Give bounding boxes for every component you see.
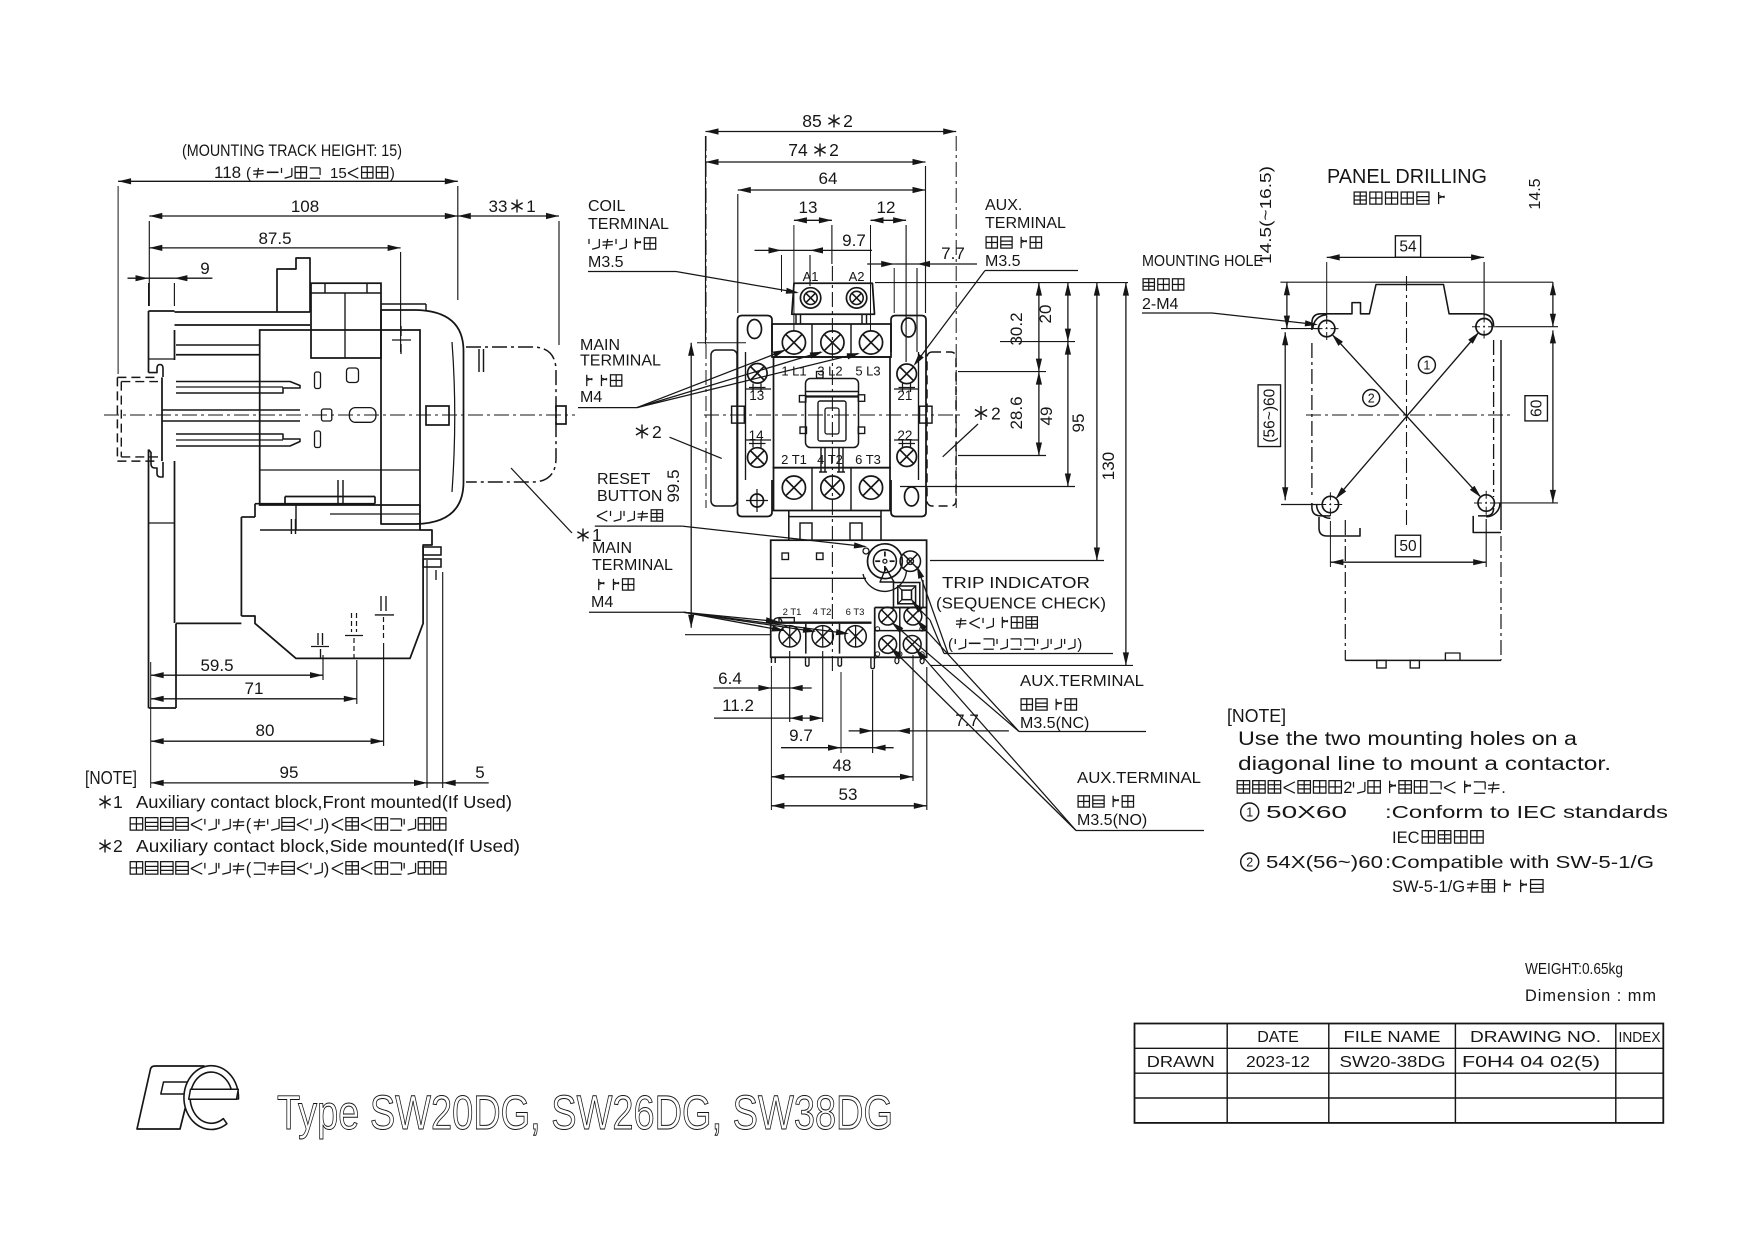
front view: locator pin bottom-left (751, 494, 764, 507)
Fuji Electric logo e ring (184, 1066, 239, 1130)
svg-text:1: 1 (1423, 359, 1430, 373)
svg-text:M4: M4 (580, 389, 602, 406)
front view: contactor upper body (772, 324, 891, 357)
front view: coil terminal housing (792, 283, 875, 314)
side view: body lower ribs (337, 480, 339, 505)
side view: top latch (277, 258, 310, 312)
title block: grid lines (1135, 1047, 1664, 1049)
svg-text:11.2: 11.2 (722, 696, 754, 715)
front view: horizontal center line (704, 414, 962, 416)
side view: relay screw mark 3 (380, 596, 382, 611)
svg-text:2 T1: 2 T1 (781, 452, 807, 467)
svg-text:108: 108 (291, 197, 319, 216)
svg-text:9.7: 9.7 (789, 726, 813, 745)
aux contact screw 21 (897, 364, 917, 384)
svg-text:AUX.TERMINAL: AUX.TERMINAL (1077, 770, 1201, 787)
note *2 line 2 (japanese) (130, 862, 142, 874)
circled 2 marker (1363, 390, 1380, 407)
svg-text:F0H4 04 02(5): F0H4 04 02(5) (1462, 1054, 1600, 1071)
front view: relay index squares (782, 553, 789, 560)
side view: relay screw mark 2 (351, 613, 353, 632)
svg-text:2: 2 (843, 111, 853, 131)
svg-text:9.7: 9.7 (842, 231, 866, 250)
panel: top reference line (1280, 281, 1553, 283)
front view: relay coupling (788, 511, 790, 541)
front view: ear hole top-left (748, 320, 762, 339)
svg-text:TERMINAL: TERMINAL (985, 215, 1066, 232)
side view: coil terminal block (top right) (311, 283, 381, 358)
svg-text:(: ( (246, 816, 252, 834)
svg-text:RESET: RESET (597, 471, 651, 488)
side view: body slot lower (315, 431, 321, 448)
front view: ear hole bottom-right (905, 487, 919, 506)
svg-text:2: 2 (113, 836, 123, 856)
svg-text:2: 2 (1343, 779, 1352, 797)
circled 1 marker (1418, 357, 1435, 374)
svg-text:21: 21 (897, 388, 912, 403)
trip indicator window (894, 583, 920, 608)
mounting hole top-left (1319, 320, 1335, 336)
svg-text:): ) (1077, 636, 1082, 653)
front view: relay bottom legs (806, 657, 810, 666)
svg-text:15: 15 (330, 165, 347, 182)
svg-text::Conform to IEC standards: :Conform to IEC standards (1385, 802, 1668, 822)
coil terminal A1 (800, 288, 820, 308)
svg-text:(SEQUENCE CHECK): (SEQUENCE CHECK) (936, 596, 1106, 613)
dimension 30.2 (1038, 283, 1040, 372)
note right item 1 (1241, 803, 1259, 821)
side view: body center slot (322, 409, 332, 421)
side view: DIN mounting rail (dashed C-channel) (117, 376, 158, 378)
svg-text:14.5(~16.5): 14.5(~16.5) (1258, 166, 1275, 264)
svg-text:2: 2 (829, 140, 839, 160)
front view: contactor lower terminal block (774, 468, 891, 511)
svg-text:54: 54 (1399, 239, 1417, 256)
svg-text:4 T2: 4 T2 (813, 607, 832, 618)
svg-text:WEIGHT:0.65kg: WEIGHT:0.65kg (1525, 961, 1623, 978)
svg-text:1: 1 (113, 792, 123, 812)
side view: body window (347, 368, 359, 383)
svg-text:2: 2 (652, 422, 662, 442)
leader: reset button (682, 526, 865, 546)
dimension 95 (front) (1096, 283, 1098, 561)
dimension 60 boxed right (1525, 396, 1548, 421)
svg-text:TERMINAL: TERMINAL (592, 557, 673, 574)
svg-text:6.4: 6.4 (718, 669, 742, 688)
svg-text:80: 80 (256, 721, 275, 740)
svg-text:Dimension : mm: Dimension : mm (1525, 987, 1657, 1005)
front view: relay lower terminal strip (771, 622, 871, 624)
svg-text:99.5: 99.5 (664, 469, 683, 502)
svg-text:1: 1 (1246, 806, 1253, 820)
svg-text:60: 60 (1528, 399, 1545, 417)
front view: ear hole top-right (902, 318, 916, 337)
panel drilling: body outline bottom (1312, 503, 1330, 516)
dimension 50 (boxed) (1395, 535, 1420, 557)
dimension 99.5 (690, 343, 692, 628)
svg-text:13: 13 (799, 198, 818, 217)
trip pin screw (900, 551, 920, 571)
leaders: main terminal upper to L1 L2 L3 (637, 351, 784, 408)
svg-text:IEC: IEC (1392, 829, 1420, 847)
note right line 3 (japanese) (1237, 781, 1249, 793)
side view: relay terminal screws (right side) (423, 547, 441, 555)
svg-text:A2: A2 (849, 269, 865, 284)
front view: index squares (799, 396, 806, 403)
side view: thermal relay block (285, 496, 375, 498)
svg-text:9: 9 (200, 259, 209, 278)
dimension 118 (118, 180, 458, 182)
title block: outer frame (1135, 1024, 1664, 1123)
front view: mounting plate top-right ear (891, 316, 926, 353)
front view: left phantom edge line (705, 136, 707, 508)
svg-text:A1: A1 (803, 269, 819, 284)
Fuji Electric logo F slot (161, 1082, 203, 1094)
svg-text:14: 14 (749, 428, 765, 443)
dimension 20 (1067, 283, 1069, 342)
svg-text:.: . (1501, 779, 1506, 797)
svg-text:SW20-38DG: SW20-38DG (1340, 1054, 1446, 1071)
svg-text:MOUNTING HOLE: MOUNTING HOLE (1142, 253, 1263, 270)
svg-text:12: 12 (877, 198, 896, 217)
svg-text:FILE NAME: FILE NAME (1344, 1029, 1441, 1046)
front view: center mechanism (806, 379, 859, 448)
svg-text:53: 53 (839, 785, 858, 804)
side view: aux block terminal tab (556, 406, 566, 424)
svg-text:TRIP INDICATOR: TRIP INDICATOR (942, 575, 1090, 592)
svg-text:INDEX: INDEX (1619, 1029, 1661, 1046)
side view: front-mounted aux contact block (phantom) (466, 347, 556, 482)
svg-text:5: 5 (475, 763, 484, 782)
leaders: NC (918, 621, 1020, 732)
svg-text:6 T3: 6 T3 (846, 607, 865, 618)
side view: magnet frame body (260, 330, 420, 505)
svg-text:Auxiliary contact block,Side m: Auxiliary contact block,Side mounted(If … (136, 836, 520, 856)
side view: mounting plate (148, 311, 150, 373)
svg-text::Compatible with SW-5-1/G: :Compatible with SW-5-1/G (1385, 852, 1654, 872)
side view: cover screw center mark (400, 326, 402, 336)
svg-text:MAIN: MAIN (580, 337, 620, 354)
dimension 28.6 (1038, 372, 1040, 456)
panel drilling: body outline top (1312, 285, 1494, 331)
mounting hole top-right (1476, 319, 1492, 335)
svg-text:2 T1: 2 T1 (783, 607, 802, 618)
svg-text:95: 95 (1069, 414, 1088, 433)
side view: pole face tab (426, 406, 449, 425)
side view: body slot upper (315, 372, 321, 389)
side view: center shaft (163, 409, 301, 411)
svg-text:2023-12: 2023-12 (1246, 1054, 1310, 1071)
svg-text:87.5: 87.5 (258, 229, 291, 248)
leader: mounting hole (1212, 313, 1316, 325)
svg-text:COIL: COIL (588, 198, 625, 215)
svg-text:PANEL DRILLING: PANEL DRILLING (1327, 166, 1487, 188)
Fuji Electric logo F (137, 1066, 204, 1129)
svg-text:7.7: 7.7 (955, 711, 979, 730)
side view: horizontal center line (104, 414, 575, 416)
main terminal 1/L1 (782, 331, 805, 354)
svg-text:2: 2 (1246, 856, 1253, 870)
front view: mounting plate top-left ear (738, 316, 773, 353)
svg-text:71: 71 (245, 679, 264, 698)
front view: coil housing feet (795, 314, 797, 324)
front view: plate side clip right (920, 406, 933, 423)
main terminal 3/L2 (821, 331, 844, 354)
relay aux terminal NC right (904, 607, 922, 625)
svg-text:TERMINAL: TERMINAL (588, 216, 669, 233)
note *2 line 1 (104, 840, 106, 853)
svg-text:Use the two mounting holes on: Use the two mounting holes on a (1238, 729, 1578, 750)
leaders: main terminal lower (684, 612, 777, 621)
mounting hole bottom-left (1322, 496, 1338, 512)
svg-text:(: ( (246, 860, 252, 878)
svg-text:30.2: 30.2 (1007, 312, 1026, 345)
trip indicator wedge (880, 568, 894, 582)
svg-text:DATE: DATE (1257, 1029, 1298, 1046)
relay main terminal T3 (845, 626, 866, 647)
svg-text:95: 95 (280, 763, 299, 782)
svg-text:DRAWN: DRAWN (1147, 1054, 1215, 1071)
svg-text:13: 13 (749, 388, 764, 403)
front view: mechanism prongs (820, 448, 822, 473)
svg-text:2-M4: 2-M4 (1142, 296, 1179, 313)
svg-text:22: 22 (897, 428, 912, 443)
svg-text:M4: M4 (591, 594, 613, 611)
side view: rail seat face (161, 377, 163, 461)
front view: relay terminal separators (805, 624, 807, 654)
svg-text:diagonal line to mount a conta: diagonal line to mount a contactor. (1238, 754, 1611, 775)
label: *1 pointer (side view) (511, 468, 572, 533)
Fuji Electric logo e eraser (184, 1066, 239, 1130)
dimension 130 (1125, 283, 1127, 666)
diagonal arrows between holes (1333, 335, 1480, 496)
label: *2 (left) (641, 425, 643, 439)
aux contact screw 14 (748, 448, 768, 468)
front view: right phantom edge line (955, 136, 957, 508)
note *1 line 2 (japanese) (130, 818, 142, 830)
main terminal 6/T3 (859, 476, 882, 499)
front view: mounting plate sides (737, 352, 739, 480)
relay main terminal T2 (812, 626, 833, 647)
svg-text:48: 48 (833, 756, 852, 775)
relay main terminal T1 (779, 626, 800, 647)
svg-text:49: 49 (1037, 407, 1056, 426)
svg-text:DRAWING NO.: DRAWING NO. (1470, 1029, 1601, 1046)
aux contact screw 13 (748, 364, 768, 384)
leaders: trip indicator (930, 620, 944, 654)
panel drilling: lower rail outline (1344, 520, 1346, 660)
svg-text:118: 118 (214, 163, 241, 182)
side view: movable contact prong lower (176, 434, 300, 446)
relay aux terminal NC left (879, 607, 897, 625)
svg-text:[NOTE]: [NOTE] (85, 768, 137, 788)
svg-text:28.6: 28.6 (1007, 396, 1026, 429)
front view: right reference line (875, 282, 1128, 284)
front view: side-mounted aux block right (dashed) (927, 352, 956, 506)
svg-text:2: 2 (1368, 392, 1375, 406)
svg-text:M3.5(NO): M3.5(NO) (1077, 812, 1147, 829)
side view: relay screw mark 1 (317, 633, 319, 645)
side view: rail hook bottom (spring clip) (149, 450, 164, 478)
side view: upper arm (175, 311, 311, 313)
svg-text:6 T3: 6 T3 (855, 452, 881, 467)
front view: side-mounted aux block left (solid) (711, 350, 737, 506)
svg-text:59.5: 59.5 (200, 656, 233, 675)
svg-text:1: 1 (526, 197, 535, 216)
dimension (56~)60 boxed left (1258, 385, 1281, 447)
front view: thermal overload relay body (771, 540, 927, 657)
front view: contactor center body (774, 357, 891, 468)
panel drilling: center lines (1406, 276, 1408, 527)
svg-text:M3.5: M3.5 (588, 254, 624, 271)
side view: body pill slot (349, 408, 376, 423)
leaders: NO (892, 649, 1077, 831)
svg-text:AUX.: AUX. (985, 197, 1022, 214)
aux contact screw 22 (897, 447, 917, 467)
svg-text:(MOUNTING TRACK HEIGHT: 15): (MOUNTING TRACK HEIGHT: 15) (182, 142, 402, 160)
svg-text:[NOTE]: [NOTE] (1227, 706, 1286, 726)
front view: mounting plate bottom-right ear (891, 480, 926, 517)
leader: aux terminal to 21 (915, 271, 985, 365)
svg-text:M3.5: M3.5 (985, 253, 1021, 270)
note right item 2 (1241, 853, 1259, 871)
svg-text:74: 74 (788, 140, 808, 160)
svg-text:85: 85 (802, 111, 821, 131)
front view: vertical center line (831, 266, 833, 672)
side view: rail hook top (149, 365, 164, 378)
svg-text:(: ( (948, 636, 953, 653)
svg-text:54X(56~)60: 54X(56~)60 (1266, 852, 1383, 872)
main terminal 5/L3 (859, 331, 882, 354)
svg-text:SW-5-1/G: SW-5-1/G (1392, 878, 1465, 896)
main terminal 4/T2 (821, 476, 844, 499)
svg-text:AUX.TERMINAL: AUX.TERMINAL (1020, 673, 1144, 690)
leader: coil terminal to A1 (676, 272, 797, 293)
front view: plate side clip left (732, 406, 745, 423)
svg-text:14.5: 14.5 (1527, 178, 1544, 209)
svg-text:50: 50 (1399, 538, 1417, 555)
svg-text:2: 2 (991, 404, 1001, 424)
svg-text:(: ( (246, 165, 251, 182)
label: *2 (right) (980, 406, 982, 420)
Fuji Electric logo e crossbar (189, 1089, 239, 1099)
svg-text:): ) (324, 860, 330, 878)
front view: relay aux terminal block (875, 607, 927, 609)
svg-text:50X60: 50X60 (1266, 802, 1347, 822)
svg-text:(56~)60: (56~)60 (1261, 388, 1278, 442)
svg-text:): ) (390, 165, 395, 182)
relay aux terminal NO left (879, 636, 897, 654)
svg-text:7.7: 7.7 (941, 244, 965, 263)
mounting hole bottom-right (1478, 495, 1494, 511)
svg-text:M3.5(NC): M3.5(NC) (1020, 715, 1089, 732)
svg-text:BUTTON: BUTTON (597, 488, 662, 505)
svg-text:Type SW20DG, SW26DG, SW38DG: Type SW20DG, SW26DG, SW38DG (277, 1087, 893, 1140)
reset button (868, 544, 903, 579)
svg-text:): ) (324, 816, 330, 834)
side view: movable contact prong upper (176, 382, 300, 394)
side view: front cover (rounded) (381, 310, 464, 524)
panel drilling: body sides (1311, 343, 1313, 497)
svg-text:33: 33 (489, 197, 508, 216)
coil terminal A2 (846, 288, 866, 308)
dimension 54 (boxed) (1395, 236, 1420, 258)
front view: mounting plate bottom-left ear (738, 480, 773, 517)
relay aux terminal NO right (903, 636, 921, 654)
svg-text:64: 64 (819, 169, 838, 188)
svg-text:MAIN: MAIN (592, 540, 632, 557)
svg-text:TERMINAL: TERMINAL (580, 353, 661, 370)
svg-text:Auxiliary contact block,Front: Auxiliary contact block,Front mounted(If… (136, 792, 512, 812)
front view: index square top-left (817, 372, 824, 379)
dimension 49 (1067, 342, 1069, 487)
svg-text:130: 130 (1099, 452, 1118, 480)
main terminal 2/T1 (782, 476, 805, 499)
svg-text:5 L3: 5 L3 (855, 364, 880, 379)
note *1 line 1 (104, 796, 106, 809)
